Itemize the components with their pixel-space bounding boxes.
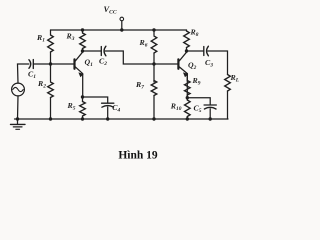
resistor R6 [151,30,157,64]
ground [11,119,26,129]
svg-text:C4: C4 [112,103,120,114]
wire source top to C1 [18,64,29,83]
svg-text:C1: C1 [28,70,36,81]
node collector Q1 [81,49,84,52]
node rail R2 [49,117,52,120]
wire bottom ground rail [15,118,229,120]
node Vcc tap [120,28,123,31]
transistor Q1 [75,52,84,97]
node base Q1 [49,62,52,65]
svg-text:Q2: Q2 [188,61,197,72]
svg-text:R1: R1 [36,33,45,44]
capacitor C2 [83,46,106,56]
svg-text:C5: C5 [194,104,202,115]
transistor Q2 [178,52,187,97]
capacitor C3 [187,46,209,56]
resistor R3 [80,30,86,51]
node base Q2 [152,62,155,65]
capacitor C4 [83,97,114,119]
wire base Q1 [51,63,74,65]
wire C3 to RL [208,51,228,75]
svg-text:R2: R2 [37,79,46,90]
svg-text:R5: R5 [67,101,76,112]
svg-text:C3: C3 [205,58,213,69]
node rail source [16,117,19,120]
resistor R7 [151,64,157,119]
source Vs (AC signal generator) [12,83,25,96]
resistor R9 [185,74,191,98]
resistor R10 [185,98,191,119]
node rail R7 [152,117,155,120]
svg-text:Q1: Q1 [85,58,94,69]
resistor R8 [184,30,190,51]
svg-text:R6: R6 [139,38,148,49]
resistor RL [225,75,231,120]
capacitor C5 [187,98,216,119]
node rail R10 [186,117,189,120]
node emitter divider [186,96,189,99]
svg-text:R9: R9 [192,76,201,87]
capacitor C1 [29,60,51,69]
resistor R2 [48,64,54,119]
svg-text:R10: R10 [170,102,182,113]
resistor R5 [80,97,86,119]
node emitter Q1 [81,95,84,98]
svg-text:R7: R7 [135,80,144,91]
svg-text:C2: C2 [99,57,107,68]
svg-text:Hình 19: Hình 19 [118,150,158,162]
node rail R5 [81,117,84,120]
node rail C5 [209,117,212,120]
svg-text:R8: R8 [190,28,199,39]
wire source bottom to ground rail [17,96,20,119]
node rail C4 [106,117,109,120]
svg-text:R3: R3 [66,32,75,43]
node collector Q2 [185,49,188,52]
wire Vcc top rail [51,29,187,31]
svg-text:VCC: VCC [104,5,117,16]
wire C2 to base Q2 [105,51,177,64]
resistor R1 [48,30,54,64]
power terminal Vcc [120,17,124,30]
node R6 top [152,28,155,31]
svg-text:RL: RL [230,73,240,84]
node R3 top [81,28,84,31]
